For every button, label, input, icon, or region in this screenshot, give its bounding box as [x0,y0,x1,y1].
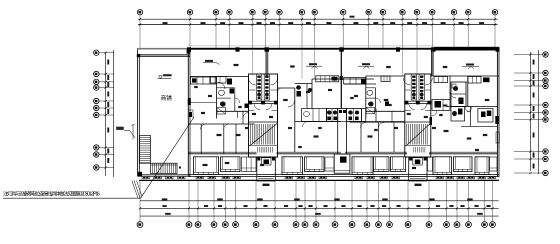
kitchen counter unit2 [432,100,450,111]
terrace level annotations [203,63,220,65]
unit1 right bath walls [295,83,312,85]
left grid bubbles [94,50,99,55]
unit2 right walls [467,76,469,107]
right grid bubbles [543,52,548,57]
core2 duct columns [411,74,416,100]
left annotation 46.2 [116,127,124,130]
right dimension chain line 1 [530,52,532,171]
bottom dimension line 1 [140,200,499,202]
unit2 left rooms [375,109,377,122]
bay window B6 [374,157,390,172]
ramp lines bottom-left [132,181,142,199]
core2 hall [409,104,415,110]
shop canopy edge [138,48,189,50]
room label texts [217,134,222,136]
hall walls unit1 [242,111,244,124]
unit2 bottom wall [345,151,407,153]
dark wardrobe box top right [483,78,490,83]
bath row left of shaft [327,109,338,122]
kitchen counter unit1 [191,77,217,84]
shop block top edge [138,54,191,56]
ground line [139,179,499,181]
main block left wall [187,48,189,177]
bay window B2 [221,157,241,172]
core1 mid band [249,100,278,102]
niche at shop wall [189,112,192,117]
top grid bubbles [137,10,142,15]
window sill labels row [142,176,150,179]
center duct shaft [338,109,347,155]
unit2 bedroom dividers [360,123,362,153]
note underline [3,197,141,199]
core1 stair diagonal [250,124,278,147]
top edge piers [187,47,191,51]
core1 stair top wall [249,121,278,123]
window module top E [434,77,448,83]
core1 shaft walls [249,74,278,157]
main block right wall [496,48,498,177]
core2 stair top wall [405,121,431,123]
bath2 upper walls [451,82,466,107]
entry marks unit2-left [385,102,389,107]
left dimension chain line 2 [113,50,115,177]
terrace divider wall unit2 [431,51,433,77]
core2 bottom wall [405,156,431,158]
main block top edge right part thick [434,47,499,51]
core1 hall [254,104,260,110]
bottom dimension texts row3 [165,213,171,215]
svg-text:注:灯具与设备等电位连接线,具体做法见图集02D501-2,: 注:灯具与设备等电位连接线,具体做法见图集02D501-2,P16 [3,190,100,197]
core2 entry porch [408,157,410,181]
core1 stair landing [249,145,278,147]
misc inner grid stubs [253,49,433,79]
top dimension line upper [138,18,498,20]
bottom grid verticals [140,181,493,222]
door arc bath1 [218,82,225,89]
top dimension texts [163,22,168,24]
bottom room wall unit1 [188,151,256,153]
core2 mid band [405,100,431,102]
right dimension texts [533,60,535,65]
bath row right of shaft [346,109,361,122]
core1 side door arcs [249,78,256,85]
right rooms unit1 [277,106,279,123]
core1 bottom wall [249,156,278,158]
party wall dark blob [332,77,338,81]
left axis leaders [99,53,114,168]
bay window B9 [454,157,473,172]
top wall unit1 [190,76,249,78]
door arc unit2 [450,92,456,98]
top grid verticals [140,15,495,49]
bedroom wall unit1 [188,123,254,125]
window module top D [381,76,390,82]
core1 entry porch [256,157,258,181]
core1 duct columns [256,74,261,100]
core1 stair hatch [251,124,275,145]
door arc unit1 right [288,100,295,107]
terrace parapet thin line [188,45,434,47]
bath2 lower cell [451,107,465,122]
main block top edge [188,48,434,50]
core2 side door arcs [403,78,410,85]
left dimension chain line 1 [105,52,107,176]
core2 stair landing [405,145,431,147]
window module top F [468,77,481,84]
bedroom door arcs unit1 [201,124,207,130]
filler window boxes between bays [242,157,257,172]
left dimension texts [107,60,109,65]
note leader diagonal [141,117,195,198]
bath unit2-left fixtures [367,90,373,95]
bottom dimension texts row2 [162,205,166,207]
bottom dimension line 3 [140,215,499,217]
core2 stair hatch [407,124,427,145]
unit2 bedroom door arcs [303,122,309,128]
top dimension line lower [138,24,498,26]
bay window B5 [352,157,373,175]
right axis leaders [514,55,543,174]
bay window B7 [391,157,406,172]
bottom grid bubbles [137,222,143,228]
window module top A [211,77,227,84]
kitchen counter unit2-left [344,78,366,85]
bottom dimension ticks [139,207,494,209]
shop block corner piers [137,54,140,57]
bottom dimension texts row1 [162,198,168,200]
svg-text:商铺: 商铺 [161,94,173,102]
closet left of shaft [302,109,327,122]
unit2 left top wall [366,75,405,77]
left dimension ticks [105,52,107,169]
main block bottom edge [188,174,499,176]
bay window B8 [433,157,452,175]
bath1 walls [216,77,218,119]
core2 shaft walls [405,74,431,157]
bottom dimension line 2 [140,207,499,209]
closet right of shaft [361,109,365,122]
bath1 fixtures [219,90,225,95]
bay window B3 [282,157,303,175]
shop level mark 5.000 [159,76,163,79]
bath unit2-left walls [365,76,367,119]
outdoor stair vertical run [140,136,151,164]
entry marks unit1 [245,104,249,109]
top dimension ticks [139,18,496,26]
core2 stair diagonal [406,124,431,147]
center shaft porch [334,154,350,173]
shop block left wall [137,49,139,177]
bay window B4 [305,157,325,172]
kitchen1 lower wall [190,102,217,104]
window module top B [316,76,339,82]
top wall unit2 [431,75,499,77]
bath3 bottom right [478,108,493,122]
right dimension ticks [529,53,531,174]
terrace divider wall unit1 [265,50,267,77]
bay window B10 [475,157,489,175]
outdoor stair horizontal run [151,163,178,173]
party wall [340,49,342,109]
right dimension chain line 2 [538,50,540,174]
right wall piers and window [495,116,499,124]
bay window B1 [194,157,219,175]
dark appliance box kitchen1 [227,79,232,85]
shop block bottom edge [138,173,191,175]
